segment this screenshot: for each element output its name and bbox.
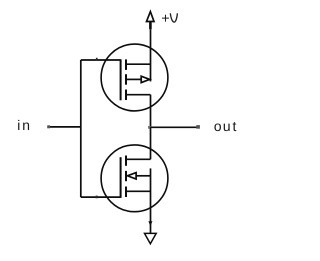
node: output terminal bbox=[196, 125, 200, 129]
node: arrowhead on ground lead bbox=[148, 221, 152, 226]
wire: gate bus vertical bbox=[80, 60, 82, 197]
wire: bus to Q2 gate bbox=[81, 196, 121, 198]
transistor Q1 PMOS (top) bbox=[101, 44, 168, 111]
wire: output lead bbox=[151, 126, 198, 128]
label in bbox=[18, 120, 29, 130]
ground bbox=[145, 233, 157, 243]
wire: bus to Q1 gate bbox=[81, 59, 121, 61]
transistor Q2 NMOS (bottom) bbox=[101, 145, 168, 212]
power symbol +V arrow bbox=[147, 12, 155, 30]
wire: Q1 drain down to output node bbox=[150, 95, 152, 128]
node: junction tick on Q1 gate lead bbox=[96, 58, 98, 61]
wire: +V rail down into Q1 source/body bar bbox=[150, 29, 152, 81]
label +V bbox=[162, 13, 177, 22]
node: output junction bbox=[148, 126, 151, 129]
wire: output node down to Q2 drain bar bbox=[150, 127, 152, 159]
wire: input lead bbox=[48, 126, 81, 128]
wire: Q2 source/body bar down to ground bbox=[150, 168, 152, 233]
node: junction tick on Q2 gate lead bbox=[96, 196, 98, 199]
node: input terminal bbox=[47, 125, 50, 128]
label out bbox=[214, 122, 236, 131]
